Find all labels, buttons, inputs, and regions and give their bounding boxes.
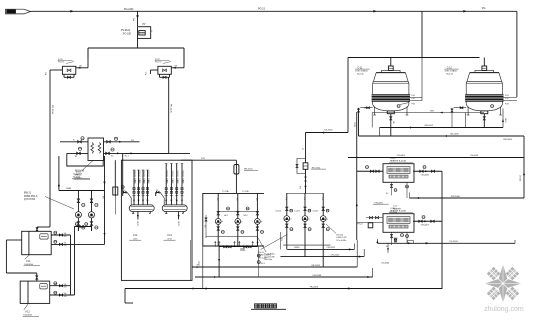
bottom collection lines B (286, 244, 288, 249)
svg-text:OR-2003: OR-2003 (311, 265, 321, 267)
svg-text:VG210: VG210 (147, 171, 149, 178)
outlet down (150, 69, 158, 71)
pipe from east purge vertical (125, 152, 169, 154)
pump P-2101B branch (91, 191, 93, 212)
vessel C-12 bottom drop (483, 114, 485, 128)
svg-text:DN50 1/2R: DN50 1/2R (337, 237, 347, 239)
drain enclosure (67, 153, 103, 166)
svg-text:OD21: OD21 (198, 261, 200, 266)
pipe purge header (88, 47, 184, 49)
svg-text:PV: PV (143, 24, 147, 26)
fill line to tank2 (6, 239, 21, 241)
tank1 outlet upper (51, 234, 70, 236)
svg-text:OD21: OD21 (136, 221, 138, 226)
riser pipes from tanks (70, 235, 72, 295)
valve (77, 152, 81, 155)
pump PA3 (255, 219, 261, 225)
pipe CS-2001 to west (306, 132, 349, 134)
pipe PW-2006 (410, 197, 525, 199)
svg-text:PG-2104: PG-2104 (51, 105, 53, 115)
drawing title (255, 304, 258, 308)
bypass valve (159, 74, 161, 77)
tank V-2101 (22, 231, 52, 254)
svg-text:TR-2005: TR-2005 (310, 286, 319, 288)
riser pipe (138, 170, 140, 205)
header outlet down (137, 212, 139, 220)
svg-text:SC-1: SC-1 (125, 156, 129, 158)
riser pipe (170, 164, 172, 205)
svg-text:PG-2105: PG-2105 (170, 104, 172, 114)
tank V-2102 (20, 281, 50, 303)
E-2102 outlet east (413, 170, 442, 172)
E-2103 inlet piping (357, 222, 383, 224)
valve (78, 140, 82, 143)
vessel C-11 dish drop (371, 113, 373, 128)
svg-text:FT-21: FT-21 (358, 224, 364, 226)
separator C-12 legs (467, 107, 469, 116)
svg-text:V-12: V-12 (25, 311, 30, 313)
svg-text:OR-2007: OR-2007 (421, 225, 430, 227)
instrument (78, 147, 81, 150)
tank label leader (24, 303, 29, 310)
E-2103 bottom drain (406, 232, 408, 243)
pipe interconnect under vessels (372, 112, 484, 114)
leader to label (257, 237, 266, 252)
flow arrow (129, 152, 132, 154)
svg-text:VG210: VG210 (133, 171, 135, 178)
svg-text:PG3: PG3 (412, 104, 416, 106)
separator C-11 disc stack (372, 94, 410, 96)
svg-text:O-6001A: O-6001A (24, 263, 33, 266)
E-2102 inlet from vertical (356, 112, 358, 240)
svg-text:FOa 0.6Ra: FOa 0.6Ra (337, 240, 348, 242)
separator C-11 legs (374, 107, 376, 116)
vessel C-12 dish drop (465, 113, 467, 128)
tank2 outlet upper (50, 285, 71, 287)
small relief valve (394, 237, 398, 239)
pipe drop to control valve (137, 11, 139, 26)
svg-text:VG210: VG210 (166, 171, 168, 178)
pipe from west purge down to tank1 (37, 226, 50, 228)
svg-text:OW-2002: OW-2002 (424, 125, 434, 127)
pipe OR-2004 (195, 276, 373, 278)
riser valve cluster (146, 188, 148, 190)
svg-text:zhulong.com: zhulong.com (484, 306, 524, 313)
valve pair under E-2102 (391, 182, 393, 195)
riser pipe (165, 164, 167, 205)
svg-text:HV-1: HV-1 (224, 215, 228, 217)
long return pipe TR-2005 (125, 288, 442, 290)
pipe vertical west purge line (49, 75, 51, 227)
svg-text:DISC STACK: DISC STACK (445, 69, 458, 72)
riser pipe (181, 164, 183, 205)
riser pipe (147, 170, 149, 205)
cluster B bottom header (283, 244, 330, 246)
svg-text:HV-213: HV-213 (337, 234, 345, 236)
svg-text:OR-2006: OR-2006 (389, 212, 398, 214)
svg-text:DN40: DN40 (142, 179, 144, 184)
cluster B top header (287, 193, 323, 195)
separator C-11 inlet valve (390, 58, 392, 67)
vessel C-11 left outlet piping (360, 107, 373, 109)
pipe hot inlet (60, 141, 88, 143)
junction verticals (353, 244, 355, 250)
heat exchanger E-2101 shell (88, 138, 104, 161)
cluster A drain header (219, 246, 258, 248)
flow arrow (117, 152, 120, 154)
pipe vertical east purge line (168, 80, 170, 153)
svg-text:CS-2001: CS-2001 (324, 129, 333, 131)
cluster A drop to transfer line (218, 247, 220, 277)
svg-text:TI2: TI2 (75, 156, 78, 158)
separator C-12 lower shell (466, 101, 502, 111)
off-page connector source flag (6, 9, 31, 14)
pipe cold outlet west (67, 152, 88, 154)
bypass valve (63, 74, 65, 77)
svg-text:DN50: DN50 (240, 250, 245, 252)
pipe left end down (124, 289, 126, 304)
svg-text:V-11: V-11 (133, 235, 138, 237)
svg-text:QR 2-203: QR 2-203 (258, 257, 268, 259)
riser pipe (133, 170, 135, 205)
svg-text:PG-21: PG-21 (258, 252, 265, 254)
vertical link down from HX feed (104, 191, 106, 245)
pipe down to cluster B (305, 169, 307, 193)
instrument (111, 148, 114, 151)
svg-text:DN80: DN80 (294, 247, 300, 249)
manifold header V-11 (129, 205, 154, 212)
svg-text:HV-2: HV-2 (244, 215, 248, 217)
instrument (81, 137, 84, 140)
separator C-11 bottom nozzle (387, 111, 394, 114)
header inlet west (122, 192, 124, 196)
svg-text:LV-211: LV-211 (295, 210, 300, 212)
pump column PA2 (237, 193, 239, 218)
separator C-12 dome (475, 70, 494, 72)
bypass loop (297, 159, 306, 174)
svg-text:CR-2001: CR-2001 (326, 247, 336, 249)
pipe CS-2002 long (348, 157, 524, 159)
svg-text:DN80: DN80 (66, 188, 72, 190)
outlet to west (50, 69, 62, 71)
pipe OR-2003 (192, 266, 357, 268)
separator C-12 bottom nozzle (481, 111, 488, 114)
bottom header (206, 236, 257, 238)
pump skid A boundary (203, 193, 264, 246)
svg-text:PG: PG (102, 196, 104, 199)
svg-text:CS-2003: CS-2003 (449, 241, 458, 243)
svg-text:DN40: DN40 (133, 179, 135, 184)
pipe OW-2002 collect (380, 127, 503, 129)
svg-text:VG210: VG210 (171, 171, 173, 178)
pipe CR-2001 (287, 248, 354, 250)
svg-text:SR-2101: SR-2101 (244, 168, 253, 170)
separator C-11 dome (382, 70, 401, 72)
riser valve cluster (165, 188, 167, 190)
leader line (82, 161, 93, 171)
valve (106, 152, 110, 155)
separator C-12 inlet valve (483, 58, 485, 67)
flow arrow (463, 10, 467, 13)
svg-text:DN40: DN40 (138, 179, 140, 184)
svg-text:DISC STACK: DISC STACK (356, 69, 369, 72)
pipe down to filter and pump cluster A (235, 160, 237, 193)
header outlet down (178, 212, 180, 220)
header inlet west (155, 192, 157, 196)
pump column PA3 (256, 193, 258, 218)
svg-text:OW-2004: OW-2004 (503, 139, 513, 141)
svg-text:DN40: DN40 (181, 179, 183, 184)
separator C-11 lower shell (373, 101, 409, 111)
svg-text:OR-2003: OR-2003 (450, 133, 459, 135)
svg-text:VG210: VG210 (142, 171, 144, 178)
riser valve cluster (176, 188, 178, 190)
riser valve cluster (181, 188, 183, 190)
pipe hot outlet east (104, 141, 140, 143)
svg-text:DN40: DN40 (176, 179, 178, 184)
svg-text:VG210: VG210 (181, 171, 183, 178)
svg-text:Q=5m3/h: Q=5m3/h (73, 174, 83, 176)
separator C-12 shell (467, 80, 502, 82)
pump column PB1 (286, 193, 288, 216)
svg-text:N=5.5k: N=5.5k (357, 74, 365, 76)
pipe vessel feed header (348, 57, 480, 59)
drain branch (326, 224, 336, 233)
tank2 outlet lower (50, 294, 75, 296)
svg-text:VG210: VG210 (138, 171, 140, 178)
svg-text:P-21A: P-21A (222, 190, 229, 193)
pump PB2 (302, 216, 308, 222)
pump PB3 (320, 216, 326, 222)
svg-text:VG210: VG210 (176, 171, 178, 178)
svg-text:DN40: DN40 (171, 179, 173, 184)
svg-text:LV-210: LV-210 (276, 210, 282, 212)
svg-text:PG2: PG2 (505, 98, 509, 100)
svg-text:V-11: V-11 (26, 261, 31, 263)
pipe CR-2002 (280, 256, 364, 258)
pipe riser to HX (58, 156, 60, 191)
svg-text:PG: PG (134, 18, 136, 21)
svg-text:PW-2006: PW-2006 (451, 196, 461, 198)
inlet from header (87, 48, 89, 68)
svg-text:P-21B: P-21B (242, 191, 249, 193)
left drop with valve (205, 215, 207, 238)
heater package HEATER E-210B (383, 214, 414, 233)
svg-text:PCV-1: PCV-1 (58, 62, 65, 64)
pipe CS-2003 (377, 242, 515, 244)
riser pipe (142, 170, 144, 205)
pipe to filter line (181, 159, 236, 161)
pump P-2101A (75, 212, 81, 218)
pipe downfeed from HX line (104, 156, 106, 191)
pipe feed drop from main line (421, 11, 423, 57)
strainer with bypass (305, 154, 307, 163)
vessel C-12 right side drop (502, 108, 504, 127)
svg-text:OR-2005: OR-2005 (421, 175, 430, 177)
svg-text:OW1: OW1 (430, 111, 434, 113)
flow arrow (373, 10, 377, 13)
tank1 outlet lower (51, 243, 104, 245)
pump column PA1 (217, 193, 219, 218)
svg-text:Q=5 H=50: Q=5 H=50 (24, 198, 36, 201)
svg-text:VD-1: VD-1 (261, 263, 265, 265)
package unit boundary box (121, 160, 192, 280)
inline filter (114, 160, 116, 196)
separator C-12 disc stack (465, 94, 503, 96)
svg-text:OR21: OR21 (504, 118, 506, 123)
pump column PB3 (322, 193, 324, 216)
svg-text:CR-2002: CR-2002 (331, 254, 341, 256)
pump PB1 (284, 216, 290, 222)
pipe condensate line east (104, 152, 191, 154)
svg-text:CS-2004: CS-2004 (381, 263, 390, 265)
riser valve cluster (133, 188, 135, 190)
svg-text:CS-2003: CS-2003 (470, 155, 479, 157)
svg-text:DN40: DN40 (166, 179, 168, 184)
svg-text:PG3: PG3 (505, 104, 509, 106)
svg-text:PG1: PG1 (505, 95, 509, 97)
svg-text:PG2: PG2 (201, 158, 205, 160)
heater package HEATER E-210A (383, 164, 414, 183)
pipe vertical OR riser (441, 171, 443, 289)
pump P-2101A branch (77, 191, 79, 212)
vessel C-12 right instrument (491, 105, 494, 108)
svg-text:PG2: PG2 (412, 98, 416, 100)
flow arrow (70, 10, 74, 13)
pipe right down (523, 136, 525, 198)
vessel C-11 right instrument (397, 105, 400, 108)
svg-text:HEATER E-210A: HEATER E-210A (390, 160, 406, 163)
inlet from header (183, 48, 185, 68)
cross valves with labels (290, 209, 293, 212)
instrument (114, 137, 117, 140)
pressure reducing station PCV-B body (158, 66, 171, 74)
svg-text:OD21: OD21 (354, 122, 356, 127)
svg-text:PG1: PG1 (412, 95, 416, 97)
watermark pinwheel logo (485, 265, 521, 303)
pump suction cross line (75, 226, 92, 228)
svg-text:CS-2002: CS-2002 (397, 155, 406, 157)
vessel C-11 right nozzles (409, 97, 422, 99)
valve (107, 140, 111, 143)
riser valve cluster (142, 188, 144, 190)
svg-text:PG: PG (482, 7, 486, 10)
pump P-2101B (88, 212, 94, 218)
svg-text:OR-2004: OR-2004 (312, 275, 322, 277)
riser valve cluster (170, 188, 172, 190)
svg-text:PG: PG (131, 140, 134, 142)
pipe main steam header (31, 10, 517, 12)
svg-text:LV-212: LV-212 (313, 210, 319, 212)
svg-text:PCV-2: PCV-2 (155, 62, 162, 64)
pressure reducing station PCV-A body (62, 66, 75, 74)
svg-text:FO 150: FO 150 (123, 33, 132, 36)
svg-text:DN80 0.6MPa: DN80 0.6MPa (258, 255, 272, 257)
leader (45, 197, 74, 210)
tank label leader (25, 255, 30, 260)
flow arrow (119, 141, 122, 143)
svg-text:21: 21 (301, 148, 303, 150)
pump PA1 (215, 219, 221, 225)
svg-text:P-21 A.B: P-21 A.B (75, 170, 85, 173)
vessel C-12 right nozzles (503, 97, 517, 99)
pipe suction header (59, 190, 105, 192)
pipe OR-2003 collect (359, 135, 525, 137)
cross line with valves (218, 211, 257, 213)
pipe feed down to header V-11 (122, 153, 124, 192)
riser valve cluster (137, 188, 139, 190)
separator C-11 shell (374, 80, 409, 82)
pump column PB2 (304, 193, 306, 216)
control valve box PV-2101 (138, 27, 151, 39)
pump columns down to suction (77, 227, 79, 232)
svg-text:N=5.5k: N=5.5k (446, 74, 454, 76)
inner boundary line (190, 240, 192, 280)
pipe from control valve down (137, 38, 139, 48)
svg-text:DN40: DN40 (147, 179, 149, 184)
cluster A column stubs (214, 241, 216, 247)
vessel C-12 left outlet piping (454, 107, 467, 109)
pump PA2 (235, 219, 241, 225)
riser pipe (176, 164, 178, 205)
inline filter Y (234, 165, 239, 175)
skid edge extension down (202, 246, 204, 289)
pipe line right edge (516, 11, 518, 97)
svg-text:OD21: OD21 (177, 221, 179, 226)
svg-text:PG-21: PG-21 (258, 8, 266, 11)
manifold header V-12 (162, 205, 187, 212)
svg-text:V-12: V-12 (167, 235, 172, 237)
svg-text:PG-2101: PG-2101 (124, 8, 134, 11)
E-2102 bottom drain (406, 182, 408, 198)
vessel C-11 bottom drop (390, 114, 392, 136)
svg-text:CY-203: CY-203 (519, 175, 521, 181)
E-2103 outlet east (413, 220, 442, 222)
